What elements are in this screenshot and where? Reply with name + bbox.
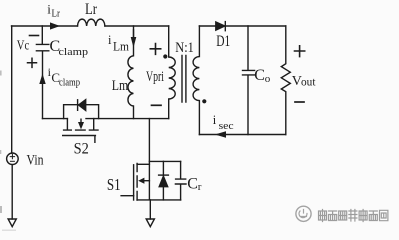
watermark text 电源研发精英圈 bbox=[319, 210, 388, 222]
label Vpri bbox=[146, 69, 164, 85]
label Vc with minus overbar bbox=[17, 38, 29, 53]
plus sign Vout bbox=[295, 46, 305, 57]
wire S1 top rail bbox=[149, 160, 180, 162]
inductor Lm (magnetizing) bbox=[128, 26, 134, 119]
minus sign Vout bbox=[295, 101, 304, 103]
polarity dot primary bbox=[163, 54, 167, 58]
svg-text:D1: D1 bbox=[216, 33, 230, 50]
label iCclamp bbox=[48, 65, 80, 89]
plus sign below Vc bbox=[28, 58, 37, 67]
current arrow iLm (down) bbox=[131, 37, 137, 48]
wire D1 to top-right corner bbox=[225, 25, 285, 27]
label Lr bbox=[85, 1, 98, 18]
svg-text:r: r bbox=[198, 181, 202, 193]
wire ground drop below S1 bbox=[149, 200, 151, 219]
wire top-left horizontal (input rail) bbox=[12, 25, 169, 27]
svg-text:Vpri: Vpri bbox=[146, 69, 164, 85]
svg-text:Lr: Lr bbox=[85, 1, 98, 18]
capacitor Co bbox=[243, 26, 255, 135]
wire drop from rail to S1 drain node bbox=[148, 119, 150, 200]
S1 body arrow (left) bbox=[138, 178, 144, 184]
label D1 bbox=[216, 33, 230, 50]
ground (below Vin) bbox=[8, 219, 16, 227]
svg-text:i: i bbox=[213, 113, 217, 127]
current arrow isec (left) bbox=[215, 131, 226, 138]
inductor Lr bbox=[78, 19, 105, 26]
label S2 bbox=[74, 140, 89, 157]
transformer secondary winding bbox=[193, 26, 199, 135]
svg-text:Lm: Lm bbox=[112, 78, 129, 94]
transistor S1 (vertical MOSFET) bbox=[121, 163, 149, 200]
svg-text:out: out bbox=[301, 77, 316, 89]
current arrow iCclamp (up) bbox=[39, 74, 45, 85]
wire bottom rail right segment to primary bbox=[86, 118, 169, 120]
S2 body arrow (down) bbox=[78, 122, 84, 129]
capacitor Cr bbox=[175, 161, 186, 200]
svg-text:Vin: Vin bbox=[27, 152, 44, 168]
minus sign above Vc bbox=[30, 35, 39, 37]
svg-text:sec: sec bbox=[219, 121, 234, 132]
transformer core bbox=[182, 56, 186, 103]
wire output bottom rail bbox=[199, 134, 285, 136]
label S1 bbox=[107, 175, 121, 194]
label Vin bbox=[27, 152, 44, 168]
svg-text:S2: S2 bbox=[74, 140, 89, 157]
polarity dot secondary bbox=[202, 99, 206, 103]
wire secondary top to D1 bbox=[199, 25, 215, 27]
wire bottom rail left segment bbox=[43, 118, 68, 120]
ground (below S1) bbox=[146, 219, 154, 227]
transformer primary winding bbox=[169, 26, 176, 119]
minus sign Vpri bbox=[152, 104, 162, 106]
diode D1 bbox=[216, 22, 226, 31]
plus sign Vpri bbox=[150, 44, 160, 55]
svg-text:Vc: Vc bbox=[17, 38, 29, 53]
svg-text:C: C bbox=[187, 175, 198, 192]
label Lm bbox=[112, 78, 129, 94]
wire S1 bottom rail bbox=[137, 199, 181, 201]
label Cr bbox=[187, 175, 202, 192]
svg-text:N:1: N:1 bbox=[175, 40, 194, 56]
svg-text:S1: S1 bbox=[107, 175, 121, 194]
label N:1 bbox=[175, 40, 194, 56]
svg-text:Lr: Lr bbox=[52, 8, 61, 20]
wire left vertical from top rail to Vin bbox=[11, 26, 13, 153]
watermark logo circle bbox=[296, 206, 311, 221]
label iLr bbox=[47, 2, 60, 20]
scan smudges left edge bbox=[0, 71, 16, 231]
source Vin bbox=[7, 153, 19, 165]
label Co bbox=[254, 67, 270, 85]
capacitor Cclamp bbox=[36, 26, 48, 119]
label iLm bbox=[108, 33, 129, 54]
body diode of S1 (points up) bbox=[159, 161, 169, 200]
label Vout bbox=[292, 74, 317, 89]
resistor Vout (load) bbox=[281, 26, 290, 135]
transistor S2 (horizontal MOSFET) bbox=[63, 119, 98, 143]
svg-text:Lm: Lm bbox=[113, 40, 129, 54]
wire Vin to ground bbox=[11, 165, 13, 219]
svg-text:clamp: clamp bbox=[59, 77, 80, 88]
body diode of S2 (points left) bbox=[64, 99, 99, 118]
label isec bbox=[213, 113, 234, 132]
svg-text:C: C bbox=[254, 67, 265, 84]
svg-text:i: i bbox=[108, 33, 112, 47]
svg-text:clamp: clamp bbox=[59, 46, 89, 58]
svg-text:o: o bbox=[265, 73, 271, 85]
current arrow iLr bbox=[50, 22, 60, 29]
label Cclamp bbox=[50, 38, 89, 58]
